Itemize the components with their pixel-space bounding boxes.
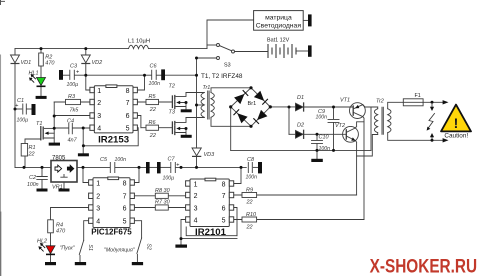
svg-text:22: 22 — [149, 107, 156, 113]
svg-text:5: 5 — [222, 217, 226, 224]
svg-text:IR2101: IR2101 — [195, 227, 227, 238]
svg-text:"Пуск": "Пуск" — [60, 245, 76, 251]
svg-text:VR1: VR1 — [52, 184, 63, 190]
svg-text:5: 5 — [126, 125, 130, 132]
svg-text:X-SHOKER.RU: X-SHOKER.RU — [370, 256, 478, 276]
svg-text:D1: D1 — [297, 95, 304, 101]
svg-text:+: + — [15, 103, 18, 109]
svg-text:6: 6 — [126, 113, 130, 120]
svg-text:C6: C6 — [150, 64, 158, 70]
svg-text:матрица: матрица — [265, 14, 292, 21]
svg-text:!: ! — [454, 115, 459, 131]
svg-text:8: 8 — [126, 88, 130, 95]
svg-text:4: 4 — [97, 125, 101, 132]
svg-text:VD1: VD1 — [21, 60, 32, 66]
svg-text:100n: 100n — [27, 182, 39, 188]
svg-text:R8 30: R8 30 — [155, 188, 171, 194]
svg-text:HL2: HL2 — [37, 238, 47, 244]
svg-text:+: + — [76, 70, 79, 76]
svg-text:R5: R5 — [149, 94, 157, 100]
svg-text:6: 6 — [222, 205, 226, 212]
svg-text:+: + — [176, 163, 179, 169]
svg-text:VD2: VD2 — [92, 60, 103, 66]
svg-text:22: 22 — [149, 133, 156, 139]
svg-text:VT1: VT1 — [340, 97, 350, 103]
svg-text:2: 2 — [96, 194, 100, 201]
svg-text:7k5: 7k5 — [70, 108, 80, 114]
svg-text:Светодиодная: Светодиодная — [256, 23, 302, 30]
svg-text:T1, T2 IRFZ48: T1, T2 IRFZ48 — [201, 73, 243, 80]
svg-text:T2: T2 — [169, 84, 175, 90]
svg-text:7: 7 — [222, 193, 226, 200]
svg-text:Br1: Br1 — [248, 101, 257, 107]
svg-text:R10: R10 — [246, 212, 257, 218]
svg-text:100n: 100n — [149, 81, 161, 87]
svg-text:5: 5 — [123, 218, 127, 225]
svg-text:7: 7 — [126, 100, 130, 107]
svg-text:470: 470 — [56, 229, 66, 235]
svg-text:1: 1 — [194, 181, 198, 188]
svg-text:S3: S3 — [224, 63, 231, 69]
svg-text:22: 22 — [246, 225, 253, 231]
svg-text:R7 30: R7 30 — [155, 200, 171, 206]
svg-text:T3: T3 — [169, 110, 176, 116]
svg-text:L1 10µH: L1 10µH — [128, 39, 150, 45]
svg-text:6: 6 — [123, 205, 127, 212]
svg-text:7805: 7805 — [52, 156, 66, 162]
svg-text:4: 4 — [96, 218, 100, 225]
svg-text:C2: C2 — [29, 175, 36, 181]
svg-text:3: 3 — [97, 113, 101, 120]
svg-text:100n: 100n — [115, 157, 127, 163]
svg-text:3: 3 — [194, 205, 198, 212]
svg-text:R3: R3 — [68, 94, 76, 100]
svg-text:Caution!: Caution! — [444, 133, 468, 140]
svg-text:C5: C5 — [100, 157, 108, 163]
svg-text:2: 2 — [194, 193, 198, 200]
svg-text:D2: D2 — [297, 123, 304, 129]
svg-text:S1: S1 — [87, 245, 93, 251]
svg-text:22: 22 — [28, 152, 35, 158]
svg-text:S2: S2 — [146, 244, 152, 250]
svg-text:R4: R4 — [56, 222, 63, 228]
svg-text:3: 3 — [96, 205, 100, 212]
svg-text:HL1: HL1 — [29, 71, 39, 77]
svg-text:2: 2 — [97, 100, 101, 107]
svg-text:1: 1 — [97, 88, 101, 95]
svg-text:F1: F1 — [415, 93, 421, 99]
svg-text:C4: C4 — [67, 119, 74, 125]
svg-text:4: 4 — [194, 217, 198, 224]
svg-text:R6: R6 — [149, 120, 157, 126]
svg-text:100n: 100n — [316, 114, 328, 120]
svg-text:100µ: 100µ — [17, 118, 29, 124]
svg-text:C7: C7 — [168, 157, 176, 163]
svg-text:100µ: 100µ — [163, 175, 175, 181]
svg-text:100n: 100n — [319, 146, 331, 152]
svg-text:Tr1: Tr1 — [203, 85, 211, 91]
svg-text:100µ: 100µ — [67, 82, 79, 88]
svg-text:Bat1 12V: Bat1 12V — [267, 38, 290, 44]
svg-text:4n7: 4n7 — [68, 138, 78, 144]
svg-text:7: 7 — [123, 194, 127, 201]
svg-text:Tr2: Tr2 — [376, 99, 384, 105]
svg-text:8: 8 — [222, 181, 226, 188]
svg-text:100n: 100n — [246, 174, 258, 180]
svg-text:R9: R9 — [246, 187, 253, 193]
svg-text:1: 1 — [96, 180, 100, 187]
svg-text:VT2: VT2 — [335, 123, 345, 129]
svg-text:C10: C10 — [319, 135, 330, 141]
svg-text:22: 22 — [246, 200, 253, 206]
svg-text:T1: T1 — [36, 121, 42, 127]
svg-text:IR2153: IR2153 — [98, 135, 129, 146]
svg-text:R1: R1 — [29, 145, 36, 151]
svg-text:PIC12F675: PIC12F675 — [91, 227, 132, 236]
svg-text:8: 8 — [123, 180, 127, 187]
svg-text:470: 470 — [45, 60, 55, 66]
svg-text:VD3: VD3 — [204, 152, 216, 158]
svg-text:"Модуляция": "Модуляция" — [104, 247, 136, 253]
svg-text:C8: C8 — [247, 157, 255, 163]
